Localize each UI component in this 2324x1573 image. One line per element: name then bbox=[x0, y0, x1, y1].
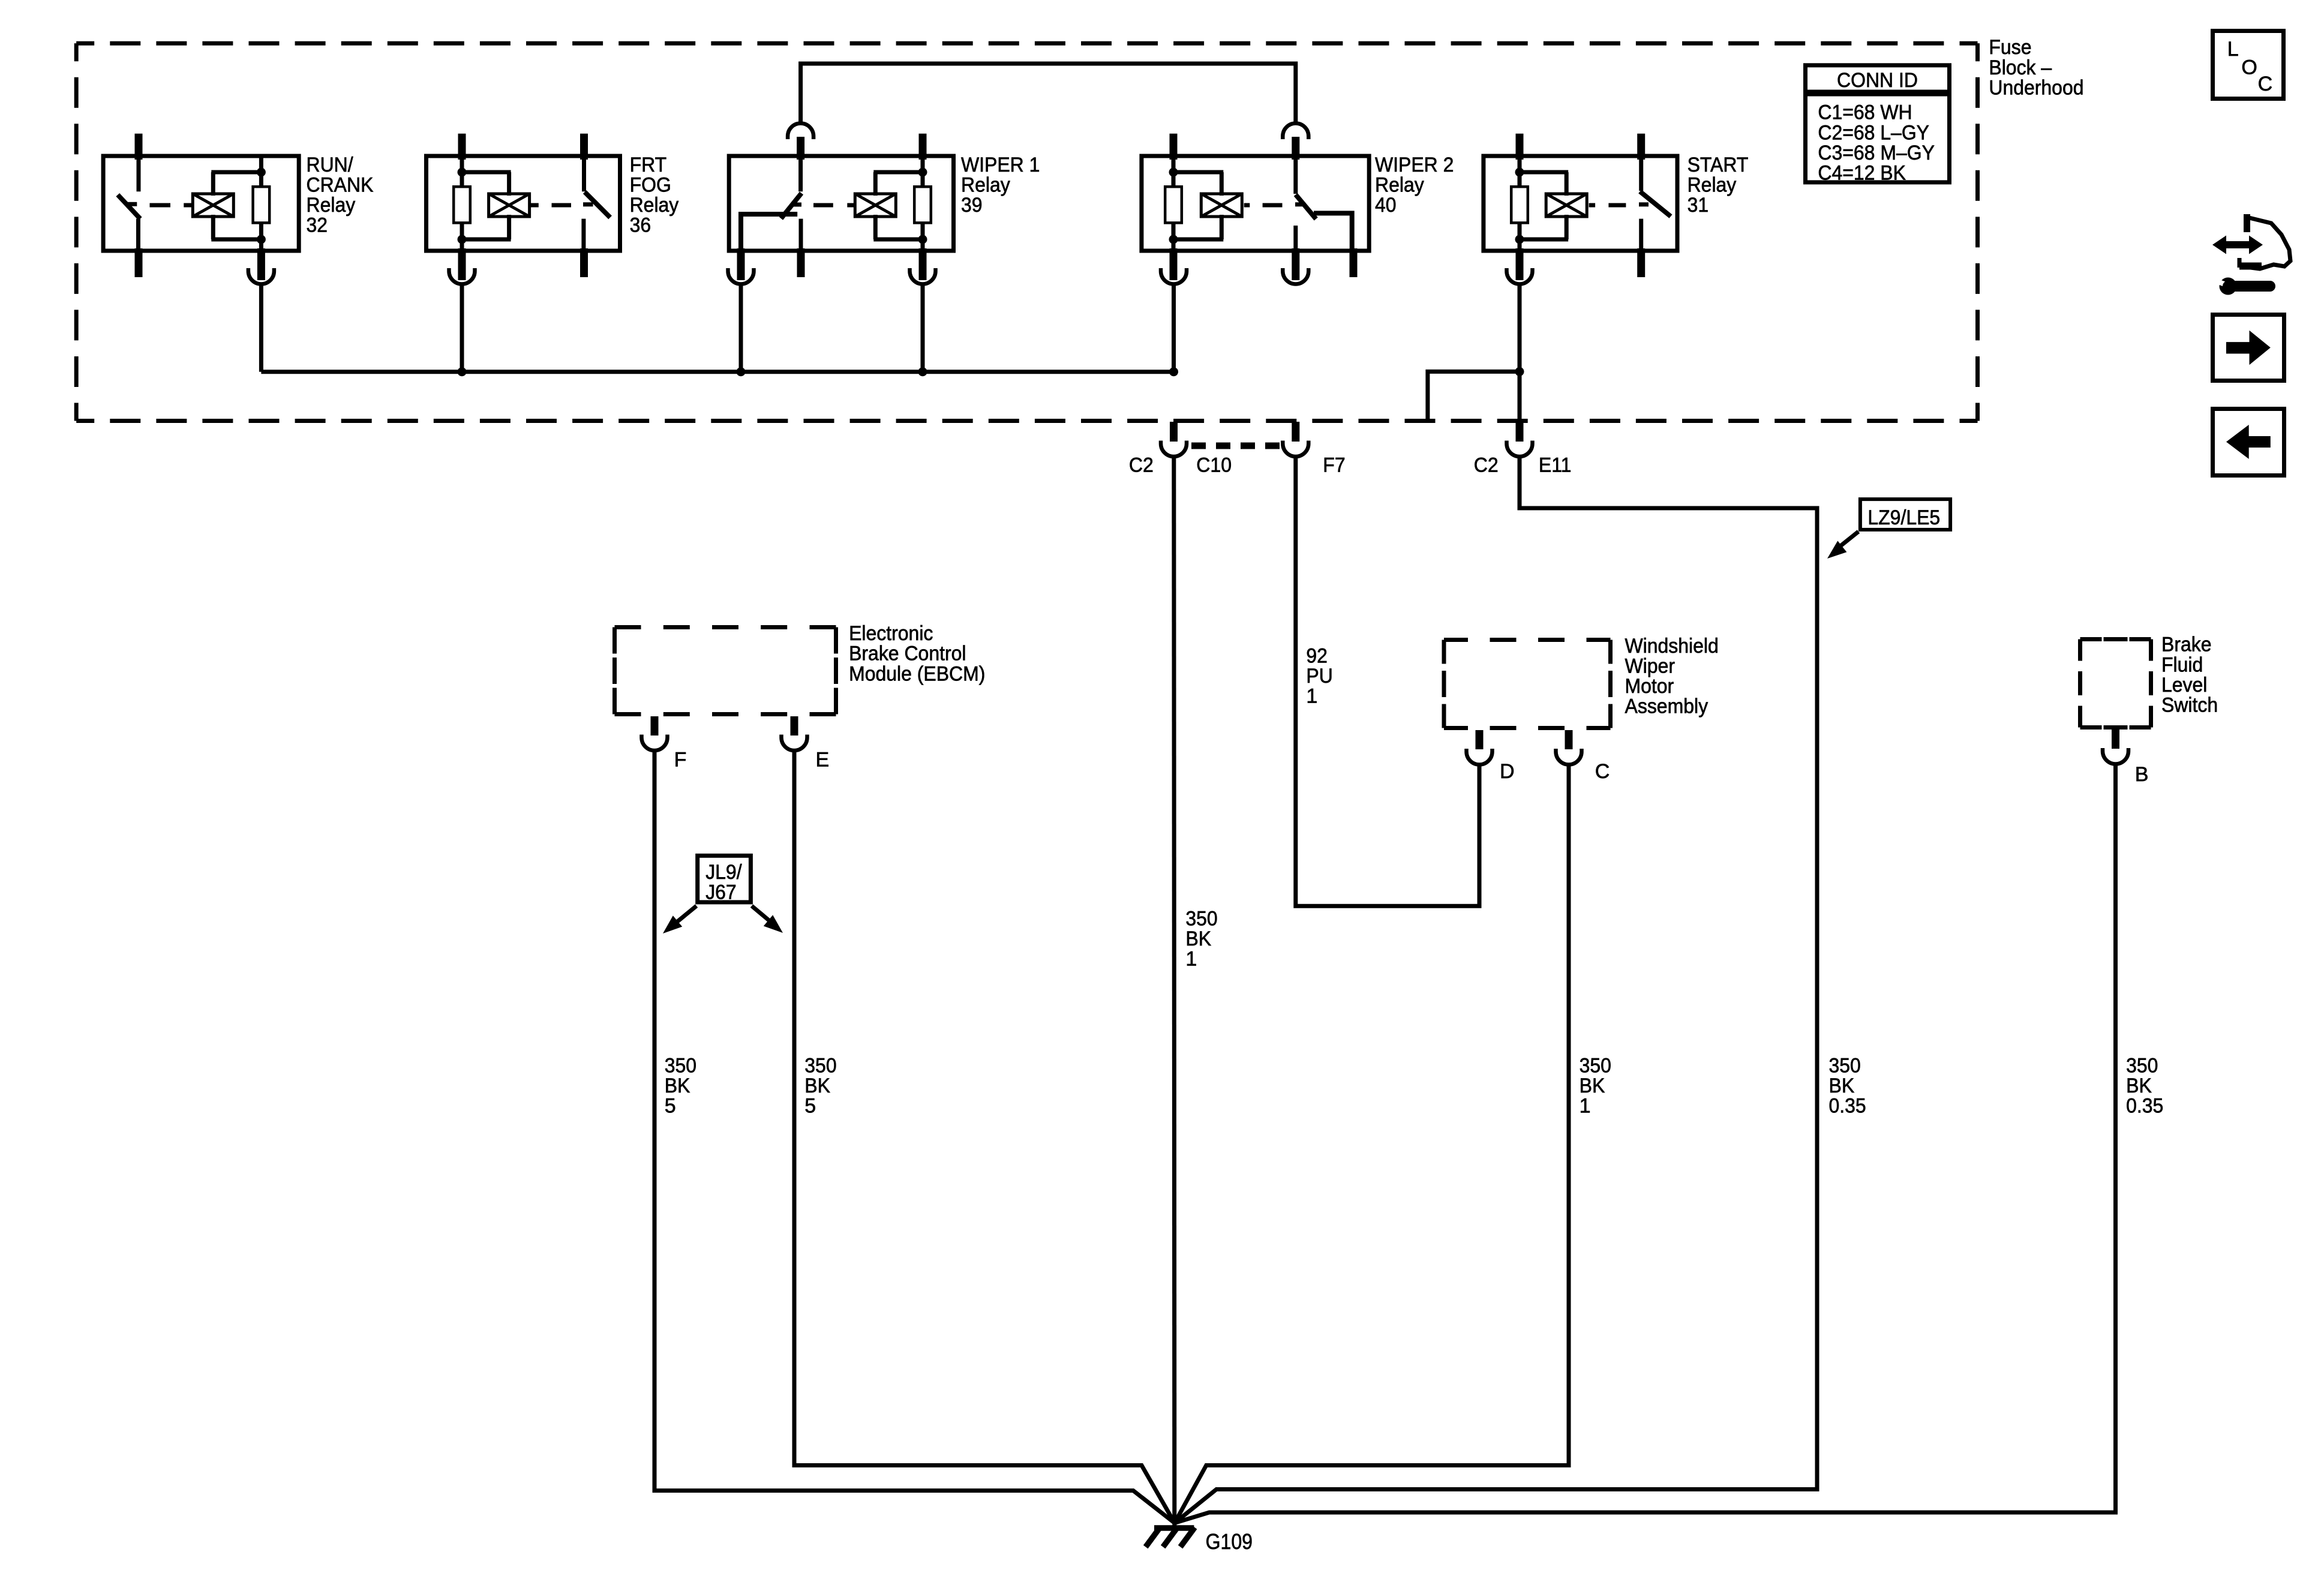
wiper motor pin C connector bbox=[1556, 730, 1582, 765]
svg-text:1: 1 bbox=[1580, 1095, 1591, 1118]
svg-text:350: 350 bbox=[1185, 907, 1217, 930]
relay 40 switch arm bbox=[1292, 137, 1316, 219]
wire motor C to ground (350 BK 1) bbox=[1175, 765, 1569, 1523]
EBCM pin F connector bbox=[642, 716, 668, 751]
icon wrench bbox=[2211, 277, 2270, 295]
svg-text:WIPER 2: WIPER 2 bbox=[1375, 154, 1454, 176]
relay 36 switch and pin 2 bbox=[580, 134, 610, 277]
junction relay39 right bus bbox=[918, 367, 927, 376]
svg-text:Windshield: Windshield bbox=[1625, 635, 1719, 658]
svg-text:350: 350 bbox=[804, 1055, 836, 1077]
label Fuse Block - Underhood bbox=[1989, 36, 2083, 99]
svg-text:0.35: 0.35 bbox=[2126, 1095, 2163, 1118]
svg-text:0.35: 0.35 bbox=[1829, 1095, 1866, 1118]
svg-text:BK: BK bbox=[1185, 927, 1211, 950]
wire relay32 to ground bus bbox=[259, 284, 263, 372]
wire relay39 left pin to bus bbox=[739, 284, 743, 372]
svg-text:350: 350 bbox=[2126, 1055, 2158, 1077]
svg-text:Level: Level bbox=[2161, 674, 2207, 697]
relay 40 actuator dashed link bbox=[1244, 203, 1283, 208]
ground G109 symbol bbox=[1146, 1527, 1195, 1547]
svg-text:Module (EBCM): Module (EBCM) bbox=[849, 662, 985, 685]
svg-text:C: C bbox=[1595, 760, 1610, 783]
svg-text:Relay: Relay bbox=[307, 194, 356, 217]
wire EBCM E to ground (350 BK 5) bbox=[794, 751, 1175, 1523]
icon double arrow bbox=[2212, 236, 2263, 254]
connector F7 grommet bbox=[1283, 422, 1308, 457]
relay 39 bottom contact stub pin bbox=[797, 219, 805, 277]
wire relay40 pin1 to bus bbox=[1172, 284, 1176, 372]
junction relay39 left bus bbox=[737, 367, 746, 376]
label 92 PU 1 bbox=[1306, 644, 1332, 707]
relay K32 RUN/CRANK box bbox=[103, 154, 374, 251]
relay 32 pin 1 (switch top, fixed contact) bbox=[135, 134, 143, 192]
wire top bus wiper1 to wiper2 bbox=[801, 64, 1296, 122]
relay 39 actuator dashed link bbox=[813, 203, 855, 208]
wire relay39 right pin to bus bbox=[921, 284, 925, 372]
svg-text:C3=68 M–GY: C3=68 M–GY bbox=[1818, 142, 1935, 164]
svg-text:J67: J67 bbox=[705, 881, 737, 904]
svg-text:LZ9/LE5: LZ9/LE5 bbox=[1867, 506, 1940, 529]
svg-text:Relay: Relay bbox=[1375, 173, 1424, 196]
relay 39 arm output wire to bottom pin bbox=[728, 214, 798, 284]
relay 39 switch arm bbox=[781, 193, 801, 218]
relay 40 arm output to right pin bbox=[1314, 213, 1358, 277]
svg-text:5: 5 bbox=[804, 1095, 816, 1118]
svg-text:START: START bbox=[1688, 154, 1749, 176]
connector wiper2 top bbox=[1283, 124, 1308, 140]
brake switch pin B connector bbox=[2103, 730, 2128, 764]
label 350 BK 1 (C wire) bbox=[1580, 1055, 1611, 1118]
svg-text:FRT: FRT bbox=[630, 154, 667, 176]
junction relay36 bus bbox=[458, 367, 467, 376]
svg-text:Block –: Block – bbox=[1989, 56, 2052, 79]
svg-text:O: O bbox=[2241, 56, 2257, 79]
svg-text:RUN/: RUN/ bbox=[307, 154, 354, 176]
svg-text:40: 40 bbox=[1375, 194, 1397, 217]
relay 40 bottom contact pin bbox=[1283, 226, 1308, 284]
svg-text:D: D bbox=[1500, 760, 1515, 783]
relay 36 pin 1 (resistor side) with connector bbox=[449, 134, 475, 284]
dashed connector link C10 bbox=[1191, 443, 1280, 449]
connector C2 grommet (C10 wire) bbox=[1161, 422, 1187, 457]
svg-text:5: 5 bbox=[665, 1095, 676, 1118]
relay 31 actuator dashed link bbox=[1589, 203, 1626, 208]
svg-text:92: 92 bbox=[1306, 644, 1328, 667]
wire relay31 pin to E11 bbox=[1518, 284, 1522, 422]
svg-text:C4=12 BK: C4=12 BK bbox=[1818, 162, 1906, 185]
svg-text:Relay: Relay bbox=[961, 173, 1010, 196]
svg-text:G109: G109 bbox=[1206, 1529, 1253, 1554]
label 350 BK 5 (F wire) bbox=[665, 1055, 696, 1118]
svg-text:31: 31 bbox=[1688, 194, 1709, 217]
svg-text:F7: F7 bbox=[1323, 454, 1345, 477]
wire C10 to G109 (350 BK 1) bbox=[1174, 457, 1175, 1529]
relay 31 pin 1 (resistor side) bbox=[1507, 134, 1533, 284]
svg-text:Relay: Relay bbox=[1688, 173, 1737, 196]
svg-text:Relay: Relay bbox=[630, 194, 679, 217]
junction bus to C10 wire bbox=[1169, 367, 1178, 376]
svg-text:32: 32 bbox=[307, 214, 328, 237]
relay 39 pin 2 connectors bbox=[910, 134, 936, 284]
svg-text:Switch: Switch bbox=[2161, 694, 2218, 717]
svg-text:BK: BK bbox=[1580, 1074, 1605, 1097]
icon left arrow box bbox=[2213, 409, 2284, 476]
svg-text:Brake Control: Brake Control bbox=[849, 643, 966, 665]
svg-text:E11: E11 bbox=[1539, 454, 1572, 477]
relay 31 coil bbox=[1511, 157, 1587, 252]
relay 36 coil bbox=[454, 157, 529, 252]
label 350 BK 0.35 (LZ9 wire) bbox=[1829, 1055, 1866, 1118]
icon LOC box bbox=[2213, 31, 2284, 99]
svg-text:CRANK: CRANK bbox=[307, 173, 374, 196]
svg-text:Wiper: Wiper bbox=[1625, 655, 1676, 677]
svg-text:C2=68 L–GY: C2=68 L–GY bbox=[1818, 121, 1929, 144]
svg-text:BK: BK bbox=[804, 1074, 830, 1097]
fuse block underhood dashed boundary bbox=[76, 43, 1977, 421]
svg-text:Motor: Motor bbox=[1625, 675, 1674, 698]
relay 32 pin 2 bottom connector bbox=[248, 248, 274, 284]
relay 39 pin top (switch feed) bbox=[797, 137, 804, 191]
wire brake switch B to ground (350 BK 0.35) bbox=[1175, 764, 2116, 1523]
relay K31 START box bbox=[1484, 154, 1749, 251]
svg-text:FOG: FOG bbox=[630, 173, 671, 196]
label Brake Fluid Level Switch bbox=[2161, 634, 2218, 717]
svg-text:WIPER 1: WIPER 1 bbox=[961, 154, 1040, 176]
wire relay36 to ground bus bbox=[460, 284, 464, 372]
relay 40 pin 1 (resistor side) bbox=[1161, 134, 1187, 284]
connector C2/E11 grommet bbox=[1507, 422, 1533, 457]
wire F7 to wiper motor D (92 PU 1) bbox=[1296, 457, 1479, 906]
svg-text:Underhood: Underhood bbox=[1989, 76, 2083, 99]
label 350 BK 5 (E wire) bbox=[804, 1055, 836, 1118]
relay 36 actuator dashed link bbox=[530, 203, 572, 208]
svg-text:E: E bbox=[816, 749, 830, 772]
relay 39 coil bbox=[855, 157, 930, 252]
EBCM dashed box bbox=[615, 628, 836, 715]
svg-text:PU: PU bbox=[1306, 665, 1332, 688]
svg-text:F: F bbox=[674, 749, 687, 772]
svg-text:Fuse: Fuse bbox=[1989, 36, 2031, 59]
svg-text:JL9/: JL9/ bbox=[705, 861, 742, 884]
svg-text:350: 350 bbox=[1829, 1055, 1861, 1077]
svg-text:CONN ID: CONN ID bbox=[1837, 69, 1918, 92]
wire EBCM F to ground (350 BK 5) bbox=[654, 751, 1175, 1523]
icon right arrow box bbox=[2213, 315, 2284, 381]
svg-text:39: 39 bbox=[961, 194, 983, 217]
wiper motor dashed box bbox=[1444, 640, 1611, 728]
svg-text:C: C bbox=[2258, 73, 2273, 95]
svg-text:350: 350 bbox=[1580, 1055, 1611, 1077]
wiper motor pin D connector bbox=[1467, 730, 1493, 765]
svg-text:C1=68 WH: C1=68 WH bbox=[1818, 101, 1912, 124]
wire start branch elbow bbox=[1428, 371, 1520, 421]
CONN ID table bbox=[1806, 65, 1950, 185]
relay K40 WIPER 2 box bbox=[1142, 154, 1454, 251]
label box LZ9/LE5 with arrow bbox=[1827, 499, 1950, 559]
relay 32 coil bbox=[193, 157, 269, 252]
svg-text:C2: C2 bbox=[1129, 454, 1154, 477]
svg-text:Assembly: Assembly bbox=[1625, 695, 1709, 718]
label 350 BK 0.35 (B wire) bbox=[2126, 1055, 2163, 1118]
relay 31 switch and pin 2 bbox=[1637, 134, 1671, 277]
svg-text:BK: BK bbox=[1829, 1074, 1855, 1097]
relay 32 switch arm and bottom pin bbox=[118, 195, 142, 277]
connector wiper1 top bbox=[788, 124, 813, 140]
svg-text:BK: BK bbox=[2126, 1074, 2152, 1097]
svg-text:BK: BK bbox=[665, 1074, 690, 1097]
brake fluid level switch dashed box bbox=[2080, 640, 2151, 728]
wire ground bus bbox=[261, 370, 1173, 374]
label 350 BK 1 (C10 wire) bbox=[1185, 907, 1217, 970]
svg-text:36: 36 bbox=[630, 214, 651, 237]
relay 40 coil bbox=[1165, 157, 1242, 252]
junction start branch bbox=[1515, 367, 1524, 376]
icon hook outline bbox=[2239, 214, 2290, 269]
svg-text:1: 1 bbox=[1306, 685, 1317, 708]
relay 32 actuator dashed link bbox=[150, 203, 193, 208]
svg-text:Brake: Brake bbox=[2161, 634, 2212, 656]
svg-text:B: B bbox=[2135, 763, 2149, 786]
label Windshield Wiper Motor Assembly bbox=[1625, 635, 1719, 718]
svg-text:L: L bbox=[2227, 38, 2239, 61]
svg-text:1: 1 bbox=[1185, 948, 1197, 971]
wire E11 to right drop (350 BK 0.35) bbox=[1175, 457, 1817, 1523]
relay K39 WIPER 1 box bbox=[729, 154, 1040, 251]
svg-text:C10: C10 bbox=[1196, 454, 1232, 477]
svg-text:Electronic: Electronic bbox=[849, 622, 933, 645]
label box JL9/J67 with arrows bbox=[663, 855, 783, 933]
relay K36 FRT FOG box bbox=[427, 154, 679, 251]
svg-text:Fluid: Fluid bbox=[2161, 653, 2203, 676]
label Electronic Brake Control Module bbox=[849, 622, 985, 685]
EBCM pin E connector bbox=[782, 716, 807, 751]
svg-text:350: 350 bbox=[665, 1055, 696, 1077]
svg-text:C2: C2 bbox=[1474, 454, 1499, 477]
